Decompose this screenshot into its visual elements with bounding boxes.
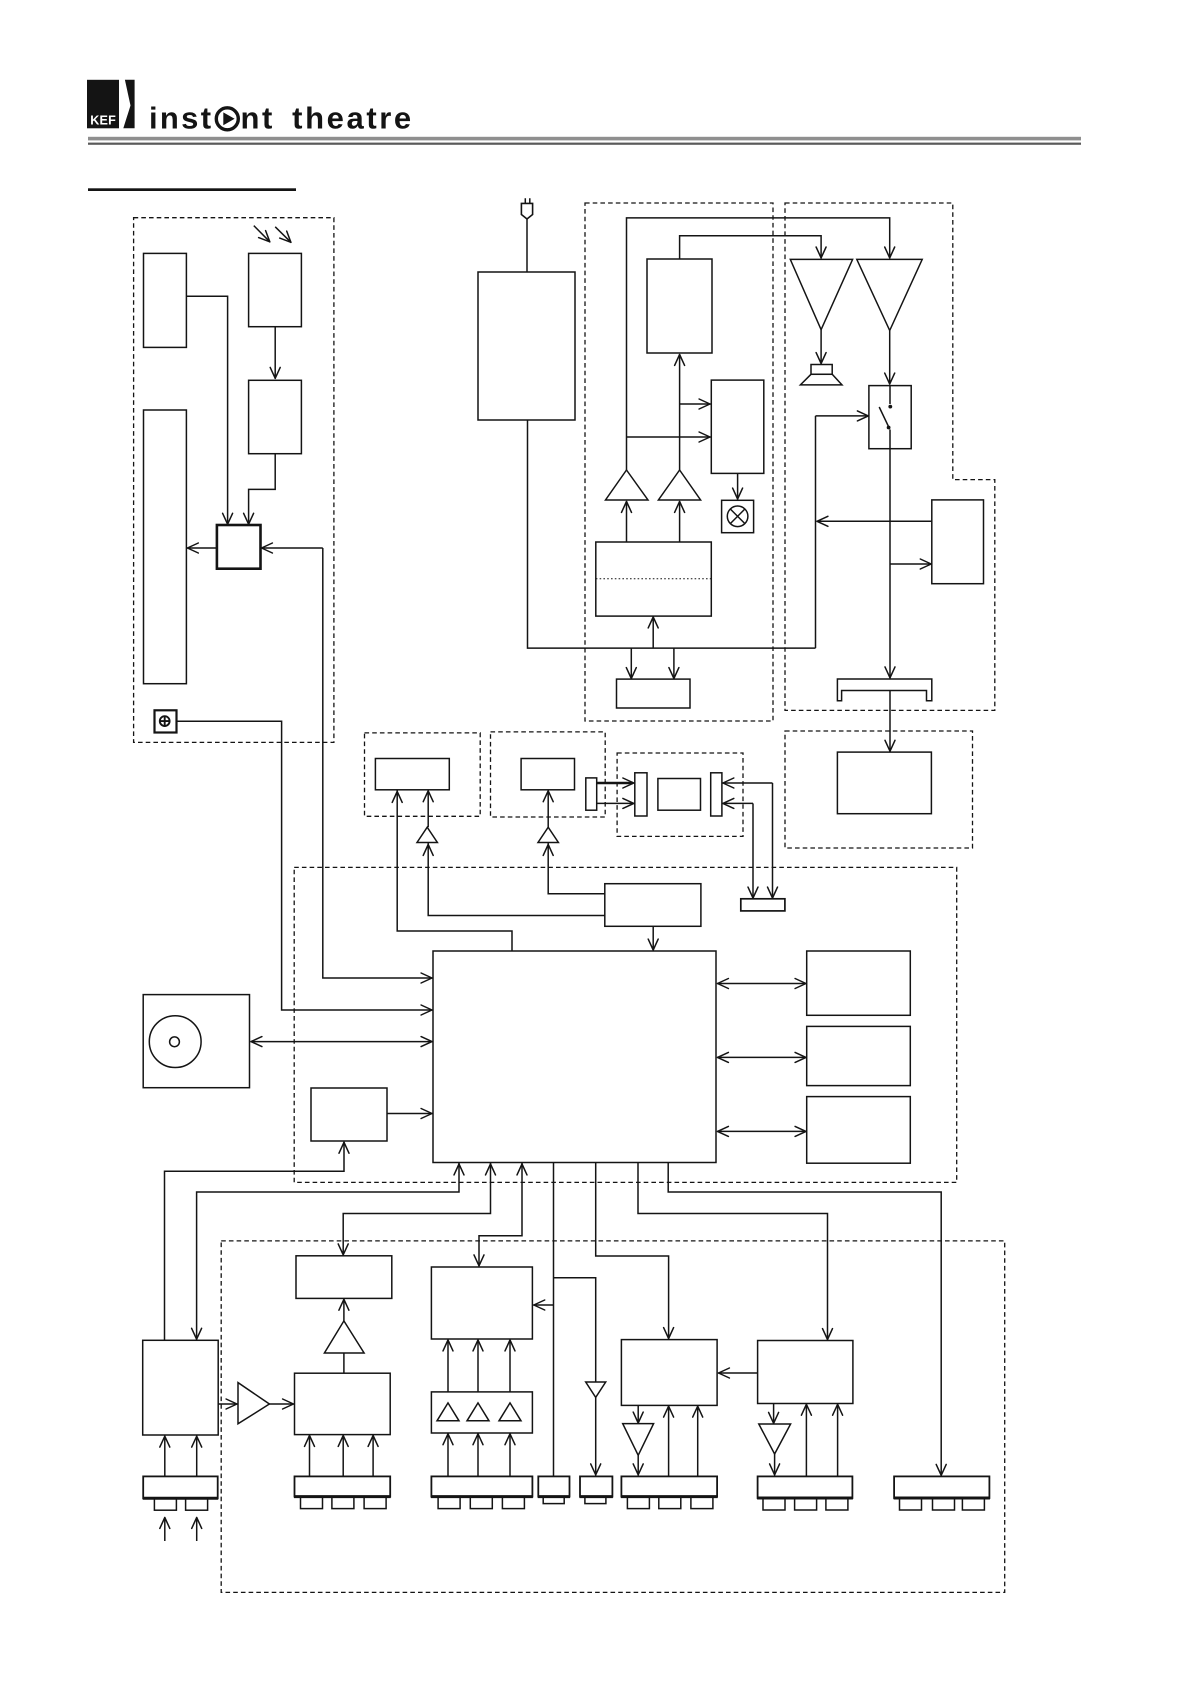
svg-text:inst: inst [149,101,213,136]
svg-text:nt theatre: nt theatre [241,101,414,136]
svg-text:KEF: KEF [90,114,116,128]
